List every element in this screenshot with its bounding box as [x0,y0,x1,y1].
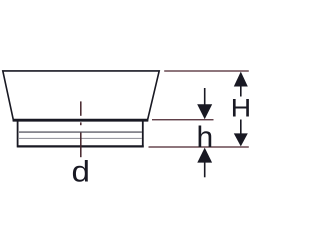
band rib line lower [19,137,142,139]
H dimension down arrow [234,133,248,146]
centerline d axis dash 2 [80,133,82,158]
ribbed band left edge [17,121,19,148]
h dimension up arrow [197,148,212,163]
extension line top (H) [164,70,249,72]
h dimension upper shaft [204,88,206,105]
H dimension lower shaft [240,120,242,135]
H dimension up arrow [234,72,248,87]
centerline d axis dash 1 [80,101,82,115]
ribbed band right edge [142,121,144,148]
cap bottom thick edge [13,119,149,122]
svg-text:H: H [231,95,250,123]
cap body trapezoid [3,71,159,120]
h dimension lower shaft [204,162,206,178]
centerline d axis dot [80,122,82,125]
h dimension down arrow [197,104,212,119]
H dimension upper shaft [240,86,242,97]
extension line bottom [149,146,249,148]
band rib line upper [19,131,142,133]
svg-text:d: d [72,155,91,188]
extension line middle (h top) [152,119,214,121]
ribbed band bottom edge [17,145,144,147]
